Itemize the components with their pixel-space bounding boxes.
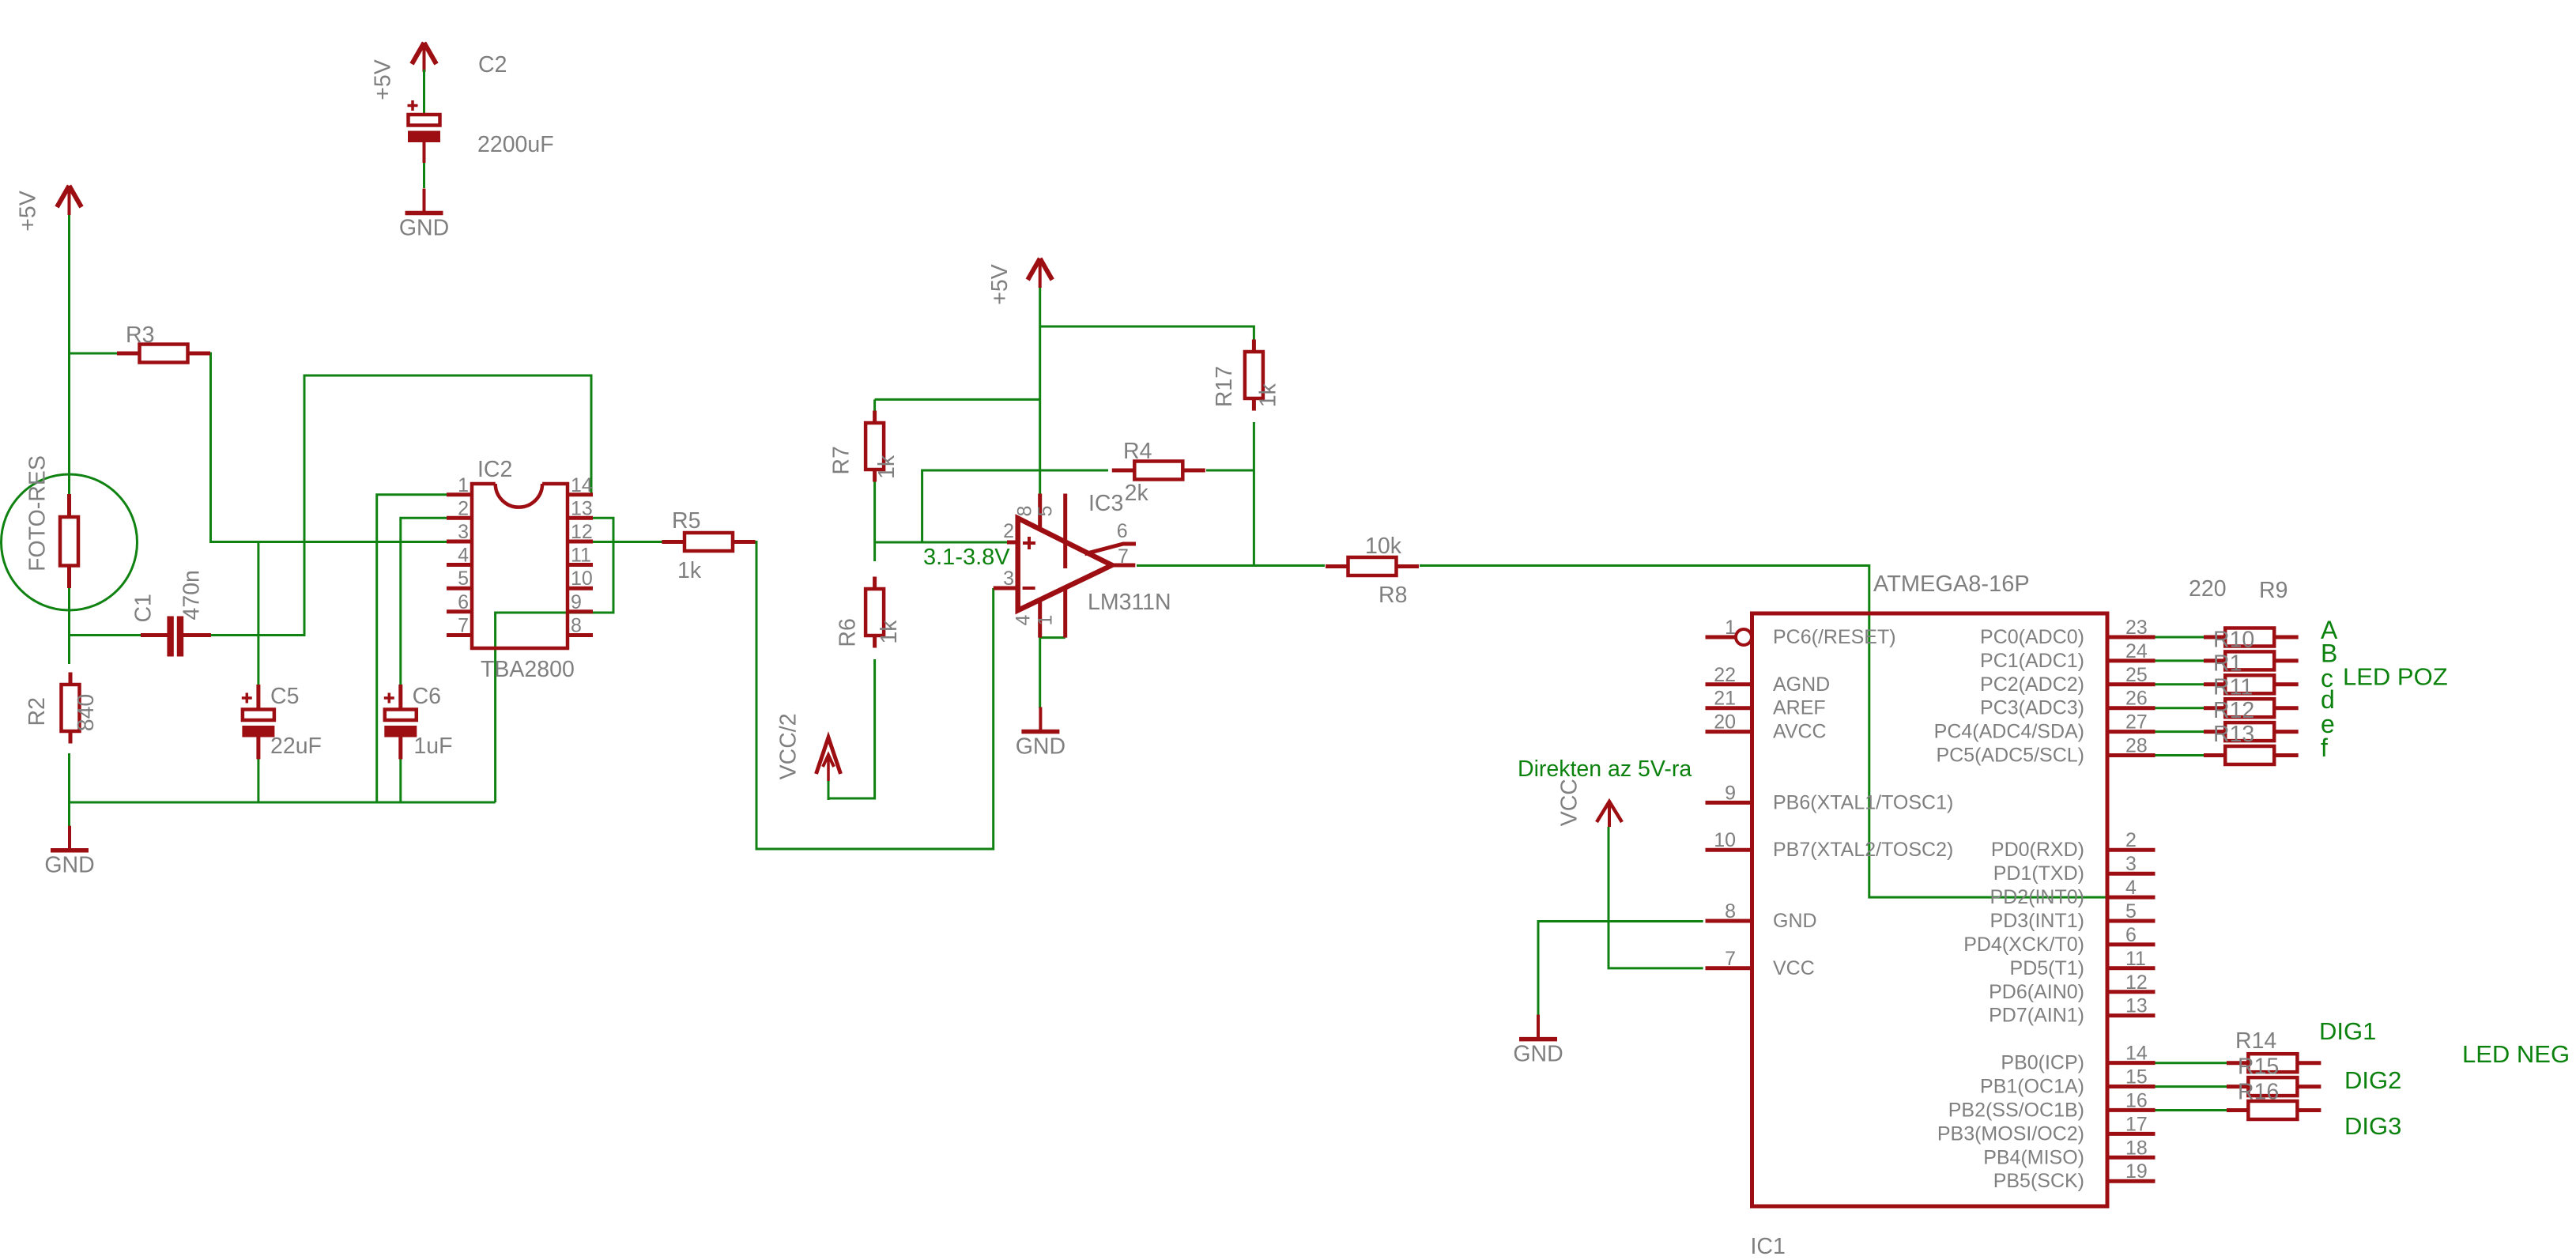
IC1 pin 4 PD2(INT0) [1990,877,2155,908]
svg-text:GND: GND [44,853,94,878]
svg-text:25: 25 [2125,664,2148,686]
svg-text:R5: R5 [672,508,700,534]
svg-text:PB3(MOSI/OC2): PB3(MOSI/OC2) [1937,1122,2084,1145]
svg-text:26: 26 [2125,688,2148,710]
svg-text:+5V: +5V [371,59,396,100]
wire R17 bottom to output [1253,422,1255,566]
svg-text:8: 8 [571,615,582,637]
svg-text:470n: 470n [179,570,204,620]
svg-text:C6: C6 [413,684,441,709]
wire R6 bottom to VCC/2 [828,659,875,798]
capacitor C5 [242,684,322,759]
svg-text:PC6(/RESET): PC6(/RESET) [1773,626,1896,648]
svg-text:VCC: VCC [1557,779,1582,826]
svg-text:2: 2 [1003,520,1014,542]
ground GND under op-amp [1016,707,1065,760]
IC2 pin 14 [568,474,593,496]
ground GND under VCC [1513,1015,1563,1067]
IC2 pin 1 [447,474,472,496]
IC2 pin 5 [447,568,472,590]
svg-text:9: 9 [571,591,582,613]
wire IC2 pin13-pin9 to GND rail [496,518,613,802]
svg-text:21: 21 [1714,688,1736,710]
wire C5 top branch [257,542,259,685]
svg-text:14: 14 [571,474,593,496]
svg-text:4: 4 [1013,614,1035,625]
resistor R5 [662,508,756,583]
IC1 pin 16 PB2(SS/OC1B) [1948,1089,2155,1121]
svg-text:AREF: AREF [1773,697,1826,719]
wire C1 right to IC2 pin14 [209,375,591,636]
IC1 pin 3 PD1(TXD) [1993,853,2155,885]
svg-text:PC4(ADC4/SDA): PC4(ADC4/SDA) [1934,721,2084,743]
svg-text:IC2: IC2 [477,457,512,482]
svg-text:8: 8 [1014,506,1036,517]
svg-text:3: 3 [2125,853,2137,875]
labels DIG1 DIG2 DIG3 LED NEG [2319,1017,2570,1140]
resistor segment R11 row pin25 [2204,674,2299,700]
svg-text:PC2(ADC2): PC2(ADC2) [1980,673,2084,696]
svg-text:3: 3 [1003,568,1014,590]
svg-text:R7: R7 [828,446,854,474]
svg-text:DIG3: DIG3 [2344,1112,2401,1140]
svg-text:PC5(ADC5/SCL): PC5(ADC5/SCL) [1936,745,2084,767]
IC2 pin 8 [568,615,593,637]
wire R5 to opamp pin3 [755,542,994,850]
svg-text:GND: GND [1513,1042,1563,1067]
svg-text:4: 4 [458,545,469,567]
svg-text:24: 24 [2125,640,2148,662]
svg-text:VCC: VCC [1773,957,1815,979]
IC2 pin 13 [568,497,593,519]
power +5V mid [987,258,1052,305]
photoresistor FOTO-RES [2,455,138,610]
label 220 R9 [2189,576,2287,603]
wire ATmega pin27 to resistor [2155,730,2204,733]
svg-text:+5V: +5V [987,264,1013,305]
svg-text:R6: R6 [835,618,860,647]
svg-text:16: 16 [2125,1089,2148,1111]
svg-text:R13: R13 [2213,722,2254,747]
wire ATmega pin14 to resistor [2155,1062,2227,1064]
IC1 pin 28 PC5(ADC5/SCL) [1936,735,2155,767]
wire +5V to R17 [1040,326,1254,342]
comparator IC3 LM311N [994,491,1171,638]
svg-text:AGND: AGND [1773,673,1830,696]
IC2 pin 6 [447,591,472,613]
svg-text:1: 1 [458,474,469,496]
svg-text:R15: R15 [2238,1054,2279,1080]
resistor R17 [1212,340,1280,411]
wire GND stub left [68,802,70,827]
svg-text:2: 2 [458,497,469,519]
svg-text:28: 28 [2125,735,2148,757]
svg-text:8: 8 [1725,900,1736,922]
microcontroller IC1 ATMEGA8-16P body [1751,572,2108,1259]
svg-text:10: 10 [571,568,593,590]
wire R7 top to +5V [875,399,1040,412]
wire IC2 pin1 net [377,495,447,802]
IC2 pin 9 [568,591,593,613]
IC2 pin 4 [447,545,472,567]
svg-text:22: 22 [1714,664,1736,686]
svg-text:R9: R9 [2259,578,2287,603]
IC2 pin 7 [447,615,472,637]
svg-text:LED POZ: LED POZ [2343,663,2448,691]
svg-text:C2: C2 [478,52,507,77]
svg-text:12: 12 [2125,971,2148,994]
svg-text:6: 6 [458,591,469,613]
resistor R16 [2227,1101,2321,1119]
svg-text:R17: R17 [1212,366,1237,407]
svg-text:7: 7 [1118,545,1129,568]
wire +5V rail left vertical [68,211,70,494]
svg-text:14: 14 [2125,1043,2148,1065]
svg-text:PD6(AIN0): PD6(AIN0) [1989,981,2084,1003]
svg-text:3: 3 [458,521,469,543]
svg-text:4: 4 [2125,877,2137,899]
wire ATmega pin24 to resistor [2155,659,2204,662]
svg-text:10: 10 [1714,829,1736,851]
IC2 pin 12 [568,521,593,543]
IC1 pin 26 PC3(ADC3) [1980,688,2155,719]
svg-text:TBA2800: TBA2800 [481,657,575,682]
wire ATmega pin16 to resistor [2155,1109,2227,1111]
IC1 pin 12 PD6(AIN0) [1989,971,2155,1003]
svg-text:13: 13 [571,497,593,519]
svg-text:LED NEG: LED NEG [2462,1040,2570,1068]
svg-text:R2: R2 [25,697,50,726]
svg-text:1k: 1k [1255,383,1280,407]
svg-text:17: 17 [2125,1113,2148,1135]
wire +5V to R3 [70,353,119,355]
svg-text:R1: R1 [2213,651,2242,676]
svg-text:C5: C5 [270,684,299,709]
IC1 pin 19 PB5(SCK) [1993,1160,2155,1192]
resistor segment R13 row pin27 [2204,722,2299,747]
IC1 pin 27 PC4(ADC4/SDA) [1934,711,2155,743]
svg-text:22uF: 22uF [270,734,322,759]
svg-text:10k: 10k [1365,534,1402,559]
svg-text:2: 2 [2125,829,2137,851]
IC1 pin 9 PB6(XTAL1/TOSC1) [1706,782,1954,813]
wire IC2 pin12 to R5 [593,541,663,543]
power VCC Direkten [1557,779,1622,827]
wire ATmega pin7 to VCC [1609,827,1703,968]
IC1 pin 14 PB0(ICP) [2001,1043,2155,1074]
svg-text:220: 220 [2189,576,2227,602]
IC1 pin 23 PC0(ADC0) [1980,617,2155,648]
svg-text:18: 18 [2125,1137,2148,1159]
IC1 pin 15 PB1(OC1A) [1980,1066,2155,1098]
svg-text:11: 11 [571,545,591,567]
svg-text:13: 13 [2125,995,2148,1017]
IC1 pin 18 PB4(MISO) [1983,1137,2155,1168]
IC1 pin 7 VCC [1706,948,1815,979]
power VCC/2 arrow [775,713,840,800]
svg-text:PB2(SS/OC1B): PB2(SS/OC1B) [1948,1099,2084,1121]
IC2 pin 2 [447,497,472,519]
wire ATmega pin28 to resistor [2155,754,2204,756]
svg-text:9: 9 [1725,782,1736,804]
wire R4 right to R17 [1206,470,1254,472]
ground GND left [44,826,94,878]
svg-text:20: 20 [1714,711,1736,734]
op-amp IC2 TBA2800 DIP body [472,457,575,682]
IC1 pin 6 PD4(XCK/T0) [1963,924,2155,956]
wire C6 bottom [399,758,402,802]
IC1 pin 5 PD3(INT1) [1990,900,2155,932]
svg-text:2k: 2k [1125,481,1149,506]
svg-text:19: 19 [2125,1160,2148,1183]
svg-text:R12: R12 [2213,698,2254,723]
wire opamp output to R8 [1137,564,1325,567]
IC1 pin 13 PD7(AIN1) [1989,995,2155,1027]
svg-text:AVCC: AVCC [1773,721,1827,743]
svg-text:1k: 1k [877,620,902,644]
svg-text:1: 1 [1725,617,1736,639]
IC2 pin 3 [447,521,472,543]
svg-text:PB5(SCK): PB5(SCK) [1993,1170,2084,1192]
svg-text:5: 5 [2125,900,2137,922]
labels LED POZ segment letters [2321,616,2448,762]
wire ATmega pin23 to resistor [2155,636,2204,639]
wire ATmega pin15 to resistor [2155,1085,2227,1088]
svg-text:1k: 1k [874,455,900,479]
svg-text:PB7(XTAL2/TOSC2): PB7(XTAL2/TOSC2) [1773,839,1953,861]
resistor R15 [2227,1077,2321,1104]
svg-text:PD1(TXD): PD1(TXD) [1993,862,2084,885]
resistor segment R12 row pin26 [2204,698,2299,723]
wire R4 left drop [922,470,1108,542]
svg-text:GND: GND [1773,910,1817,932]
IC1 pin 10 PB7(XTAL2/TOSC2) [1706,829,1954,861]
svg-text:R10: R10 [2213,628,2254,653]
svg-text:5: 5 [458,568,469,590]
svg-text:PB6(XTAL1/TOSC1): PB6(XTAL1/TOSC1) [1773,791,1953,813]
IC1 pin 21 AREF [1706,688,1826,719]
svg-text:PC1(ADC1): PC1(ADC1) [1980,650,2084,672]
wire ATmega pin26 to resistor [2155,707,2204,709]
IC2 pin 11 [568,545,593,567]
resistor R14 [2227,1028,2321,1080]
svg-text:Direkten az 5V-ra: Direkten az 5V-ra [1518,756,1692,782]
svg-text:840: 840 [74,694,99,732]
svg-text:1: 1 [1035,615,1057,626]
svg-text:7: 7 [458,615,469,637]
label Direkten az 5V-ra [1518,756,1692,782]
svg-text:1k: 1k [677,558,702,583]
wire R3 to IC2 pin3 net [209,353,447,542]
svg-text:PD5(T1): PD5(T1) [2010,957,2084,979]
wire opamp pins 4-1 to GND [1040,638,1065,708]
wire IC2 pin2 to C6 [401,518,447,685]
svg-text:5: 5 [1035,506,1057,517]
IC2 pin 10 [568,568,593,590]
svg-text:PC0(ADC0): PC0(ADC0) [1980,626,2084,648]
capacitor C2 [408,52,554,188]
IC1 pin 22 AGND [1706,664,1831,696]
resistor R4 [1112,439,1205,506]
svg-text:f: f [2321,734,2328,762]
svg-text:PD2(INT0): PD2(INT0) [1990,886,2084,908]
IC1 pin 2 PD0(RXD) [1991,829,2155,861]
svg-text:PB1(OC1A): PB1(OC1A) [1980,1076,2084,1098]
wire ATmega pin8 to GND [1538,922,1703,1017]
svg-text:PD3(INT1): PD3(INT1) [1990,910,2084,932]
power +5V at C2 [371,43,437,100]
wire C1 left [70,634,141,636]
svg-text:R4: R4 [1123,439,1152,464]
svg-text:VCC/2: VCC/2 [775,713,801,779]
svg-text:11: 11 [2125,948,2146,970]
wire +5V mid vertical [1039,288,1041,494]
svg-text:PB0(ICP): PB0(ICP) [2001,1052,2084,1074]
svg-text:PD7(AIN1): PD7(AIN1) [1989,1005,2084,1027]
svg-text:C1: C1 [130,594,156,622]
svg-text:1uF: 1uF [413,734,452,759]
capacitor C6 [384,684,453,759]
svg-text:R11: R11 [2213,674,2253,700]
wire photores to R2 [68,588,70,664]
svg-text:IC3: IC3 [1088,491,1123,516]
resistor R8 [1326,534,1419,608]
resistor R7 [828,411,900,482]
svg-text:12: 12 [571,521,593,543]
svg-text:3.1-3.8V: 3.1-3.8V [923,545,1010,570]
capacitor C1 [130,570,211,656]
svg-text:6: 6 [2125,924,2137,946]
resistor R3 [117,323,210,363]
svg-text:2200uF: 2200uF [477,132,554,157]
svg-text:R14: R14 [2235,1028,2276,1054]
label 3.1-3.8V [923,545,1010,570]
IC1 pin 1 PC6(/RESET) [1706,617,1896,648]
resistor R6 [835,577,902,648]
wire R8 to ATmega PD2 [1420,566,2107,898]
svg-text:R3: R3 [126,323,154,348]
svg-text:27: 27 [2125,711,2148,734]
ground GND under C2 [399,189,449,241]
svg-text:LM311N: LM311N [1088,590,1171,615]
wire R7-R6 junction to opamp pin2 [875,481,1007,561]
svg-text:+5V: +5V [16,191,41,232]
svg-text:15: 15 [2125,1066,2148,1088]
resistor segment R row pin28 [2204,746,2299,764]
IC1 pin 17 PB3(MOSI/OC2) [1937,1113,2155,1145]
svg-text:23: 23 [2125,617,2148,639]
svg-text:IC1: IC1 [1751,1234,1786,1259]
svg-text:DIG1: DIG1 [2319,1017,2376,1045]
svg-text:PC3(ADC3): PC3(ADC3) [1980,697,2084,719]
svg-text:FOTO-RES: FOTO-RES [25,455,51,572]
svg-text:DIG2: DIG2 [2344,1066,2401,1094]
svg-text:7: 7 [1725,948,1736,970]
wire C5 bottom [257,758,259,802]
resistor segment R1 row pin24 [2204,651,2299,676]
power +5V left [16,186,81,232]
svg-text:6: 6 [1117,520,1128,542]
IC1 pin 24 PC1(ADC1) [1980,640,2155,672]
svg-text:R8: R8 [1379,583,1407,608]
wire R2 to GND rail [68,753,70,802]
svg-text:GND: GND [1016,734,1065,760]
svg-text:PD4(XCK/T0): PD4(XCK/T0) [1963,934,2084,956]
svg-text:ATMEGA8-16P: ATMEGA8-16P [1873,572,2030,597]
svg-text:PB4(MISO): PB4(MISO) [1983,1146,2084,1168]
IC1 pin 20 AVCC [1706,711,1827,743]
svg-text:GND: GND [399,216,449,241]
IC1 pin 8 GND [1706,900,1817,932]
IC1 pin 11 PD5(T1) [2010,948,2155,979]
svg-text:PD0(RXD): PD0(RXD) [1991,839,2084,861]
wire ATmega pin25 to resistor [2155,683,2204,685]
wire GND rail bottom [70,802,496,804]
resistor segment R10 row pin23 [2204,628,2299,653]
resistor R2 [25,673,99,744]
IC1 pin 25 PC2(ADC2) [1980,664,2155,696]
